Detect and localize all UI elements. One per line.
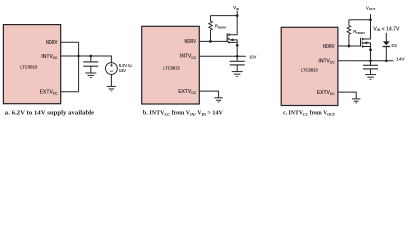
wire VIN label to diode bbox=[385, 33, 387, 42]
ground (capacitor C3) bbox=[365, 75, 376, 80]
svg-text:NDRV: NDRV bbox=[46, 40, 58, 46]
wire INTVCC pin to source node bbox=[199, 55, 246, 57]
svg-text:LTC3813: LTC3813 bbox=[301, 68, 318, 73]
wire EXTVCC pin to bus bbox=[61, 91, 79, 93]
transistor Q1 NMOS bbox=[227, 33, 238, 56]
svg-text:6.2V to: 6.2V to bbox=[119, 63, 133, 68]
resistor RNDRV (C) bbox=[347, 20, 351, 46]
svg-text:D1: D1 bbox=[392, 43, 398, 48]
node junction NDRV/resistor bbox=[209, 40, 212, 43]
ground (EXTVCC C) bbox=[352, 99, 360, 103]
node junction VOUT rail bbox=[369, 18, 372, 21]
node junction NDRV/resistor bbox=[348, 45, 351, 48]
ground (source V1) bbox=[107, 86, 116, 91]
wire EXTVCC pin to ground bbox=[199, 91, 218, 97]
IC U2 LTC3813 bbox=[142, 26, 200, 104]
wire resistor top to VOUT rail bbox=[349, 19, 371, 21]
IC U1 LTC3813 bbox=[3, 25, 60, 104]
svg-text:b. INTVCC from VIN, VIN > 14V: b. INTVCC from VIN, VIN > 14V bbox=[143, 110, 223, 117]
svg-text:VIN: VIN bbox=[233, 5, 239, 11]
diode D1 bbox=[383, 41, 391, 60]
IC U3 LTC3813 bbox=[281, 27, 338, 105]
wire NDRV pin to gate bbox=[338, 45, 361, 47]
svg-text:14V: 14V bbox=[396, 57, 405, 63]
transistor Q2 NMOS bbox=[361, 38, 372, 61]
node junction capacitor tap bbox=[89, 55, 92, 58]
wire vertical bus tying NDRV/INTVCC/EXTVCC bbox=[78, 42, 80, 91]
capacitor C1 bbox=[83, 56, 98, 73]
capacitor C2 bbox=[230, 56, 245, 71]
value label 6.2V to 14V bbox=[119, 63, 133, 73]
wire VOUT rail to drain bbox=[363, 20, 371, 39]
svg-text:a. 6.2V to 14V supply availabl: a. 6.2V to 14V supply available bbox=[5, 110, 94, 117]
wire NDRV pin to gate bbox=[199, 40, 227, 42]
svg-text:NDRV: NDRV bbox=[323, 44, 335, 50]
svg-text:VOUT: VOUT bbox=[366, 5, 376, 11]
node junction VIN rail bbox=[236, 14, 239, 17]
wire EXTVCC pin to ground bbox=[338, 92, 356, 99]
svg-text:14V: 14V bbox=[119, 68, 127, 73]
wire INTVCC pin to source node bbox=[338, 60, 394, 62]
wire resistor top to VIN rail bbox=[211, 15, 238, 17]
node junction INTVCC/diode bbox=[385, 59, 388, 62]
svg-text:10V: 10V bbox=[249, 54, 257, 60]
voltage source V1 6.2V to 14V bbox=[106, 63, 118, 75]
svg-text:VIN < 14.7V: VIN < 14.7V bbox=[373, 26, 400, 32]
ground (capacitor C2) bbox=[232, 72, 243, 77]
svg-text:LTC3813: LTC3813 bbox=[163, 65, 180, 70]
svg-text:NDRV: NDRV bbox=[185, 39, 197, 45]
ground (capacitor C1) bbox=[85, 73, 96, 77]
wire source to ground bbox=[110, 74, 112, 86]
node junction INTVCC/cap bbox=[236, 55, 239, 58]
wire INTVCC pin to supply bbox=[61, 56, 112, 63]
wire VIN rail to drain bbox=[229, 16, 237, 35]
node VIN label stub bbox=[236, 11, 238, 16]
node VOUT label stub bbox=[370, 14, 372, 20]
node junction bus/INTVCC bbox=[77, 55, 80, 58]
ground (EXTVCC B) bbox=[214, 98, 222, 102]
capacitor C3 bbox=[363, 61, 378, 75]
wire NDRV pin to bus bbox=[61, 41, 79, 43]
resistor RNDRV (B) bbox=[209, 16, 213, 42]
svg-text:LTC3813: LTC3813 bbox=[20, 65, 38, 70]
node junction INTVCC/cap bbox=[369, 59, 372, 62]
